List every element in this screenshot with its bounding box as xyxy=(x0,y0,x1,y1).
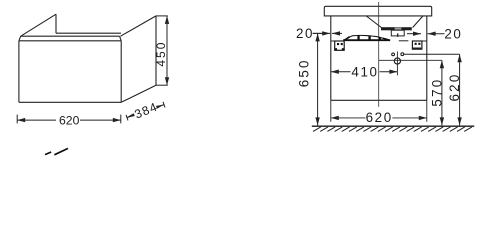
svg-text:650: 650 xyxy=(297,58,312,87)
svg-text:620: 620 xyxy=(59,114,80,128)
svg-text:620: 620 xyxy=(447,73,462,102)
svg-text:20: 20 xyxy=(444,26,462,41)
svg-text:620: 620 xyxy=(366,110,393,125)
svg-text:570: 570 xyxy=(429,78,444,107)
svg-text:450: 450 xyxy=(154,41,168,67)
svg-text:384: 384 xyxy=(132,100,159,122)
svg-text:410: 410 xyxy=(351,64,378,79)
svg-text:20: 20 xyxy=(296,26,314,41)
